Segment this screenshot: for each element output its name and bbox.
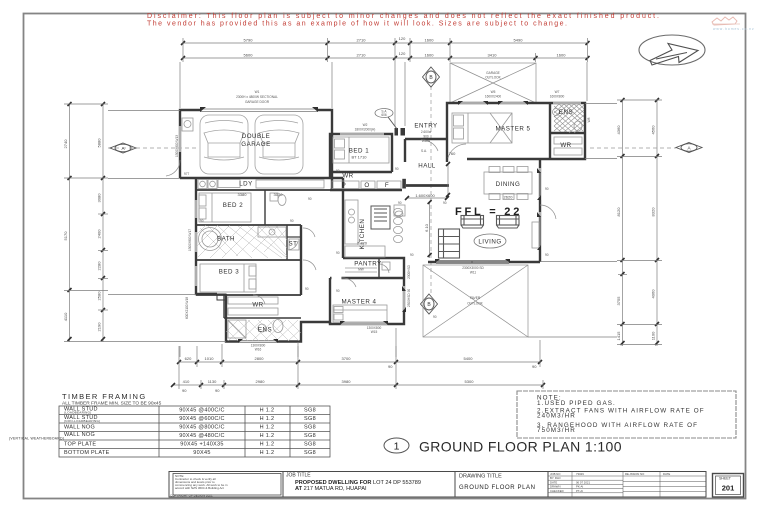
svg-text:90: 90 (398, 201, 402, 205)
svg-text:120: 120 (399, 51, 406, 56)
svg-text:2.720: 2.720 (357, 241, 368, 246)
svg-text:90: 90 (545, 253, 549, 257)
svg-text:W16: W16 (255, 348, 262, 352)
svg-text:3700: 3700 (342, 356, 352, 361)
svg-text:1300X800 W13: 1300X800 W13 (175, 135, 179, 157)
svg-text:90: 90 (433, 315, 437, 319)
svg-text:W7: W7 (555, 90, 560, 94)
svg-text:H 1.2: H 1.2 (260, 442, 275, 448)
svg-text:BT 1710: BT 1710 (351, 155, 367, 160)
svg-text:2710: 2710 (357, 53, 367, 58)
svg-text:2980: 2980 (256, 379, 266, 384)
svg-text:90: 90 (290, 219, 294, 223)
svg-text:BATH: BATH (217, 236, 235, 243)
svg-text:90X45: 90X45 (193, 450, 210, 456)
svg-text:90: 90 (443, 201, 447, 205)
svg-text:2190: 2190 (97, 322, 102, 332)
svg-text:W5: W5 (491, 90, 496, 94)
svg-text:6.10: 6.10 (424, 223, 429, 232)
svg-text:w w w . h o m e s . c o . n z: w w w . h o m e s . c o . n z (713, 27, 754, 31)
svg-text:LDY: LDY (239, 181, 253, 188)
svg-text:90: 90 (336, 169, 340, 173)
svg-text:W8: W8 (587, 117, 591, 122)
svg-text:90: 90 (545, 187, 549, 191)
svg-text:240M3/HR: 240M3/HR (537, 413, 576, 420)
svg-text:SG8: SG8 (304, 425, 316, 431)
svg-text:DOUBLE: DOUBLE (242, 133, 270, 140)
svg-text:P: P (342, 182, 347, 189)
svg-text:900: 900 (423, 135, 429, 139)
svg-text:1800X2000(H): 1800X2000(H) (355, 128, 376, 132)
svg-text:90: 90 (336, 289, 340, 293)
svg-text:TIMBER FRAMING: TIMBER FRAMING (62, 392, 147, 401)
svg-text:2300HSD 90: 2300HSD 90 (407, 289, 411, 307)
svg-text:SG8: SG8 (304, 450, 316, 456)
svg-text:1.USED PIPED GAS.: 1.USED PIPED GAS. (537, 400, 616, 407)
svg-text:ENTRY: ENTRY (414, 123, 437, 130)
svg-text:1130: 1130 (208, 379, 217, 384)
svg-text:WR: WR (342, 173, 353, 180)
svg-text:2740: 2740 (63, 139, 68, 149)
svg-text:4560: 4560 (651, 125, 656, 135)
svg-text:H 1.2: H 1.2 (260, 425, 275, 431)
svg-text:Disclaimer: This floor plan is: Disclaimer: This floor plan is subject t… (147, 13, 659, 20)
svg-text:MASTER 4: MASTER 4 (342, 299, 377, 306)
svg-text:90: 90 (388, 364, 393, 369)
svg-text:4060: 4060 (651, 289, 656, 299)
svg-text:AT 217 MATUA RD, HUAPAI: AT 217 MATUA RD, HUAPAI (295, 486, 367, 492)
svg-text:90: 90 (308, 197, 312, 201)
svg-text:WDW: WDW (422, 139, 430, 143)
svg-text:WR: WR (252, 302, 263, 309)
svg-text:5400: 5400 (464, 356, 474, 361)
svg-text:FFL = 22: FFL = 22 (455, 206, 522, 218)
svg-text:90X45 +140X35: 90X45 +140X35 (180, 442, 224, 448)
svg-text:SG8: SG8 (304, 433, 316, 439)
svg-text:DRAWING TITLE: DRAWING TITLE (459, 474, 502, 480)
svg-text:2710: 2710 (357, 38, 367, 43)
svg-text:600X2100 W18: 600X2100 W18 (185, 297, 189, 319)
svg-text:120: 120 (399, 36, 406, 41)
svg-text:BED 2: BED 2 (223, 202, 243, 209)
svg-text:BOTTOM PLATE: BOTTOM PLATE (64, 450, 110, 456)
svg-text:5300: 5300 (465, 379, 475, 384)
svg-text:H 1.2: H 1.2 (260, 433, 275, 439)
svg-text:W1: W1 (255, 90, 260, 94)
svg-text:1600X800: 1600X800 (550, 95, 565, 99)
svg-text:606: 606 (381, 113, 387, 117)
svg-text:WR: WR (560, 142, 571, 149)
svg-text:2400: 2400 (97, 229, 102, 239)
svg-text:90: 90 (200, 219, 204, 223)
svg-text:4110: 4110 (63, 312, 68, 321)
svg-text:ENS: ENS (258, 327, 272, 334)
svg-text:H 1.2: H 1.2 (260, 450, 275, 456)
svg-text:1010: 1010 (205, 356, 215, 361)
svg-text:8320: 8320 (651, 207, 656, 217)
svg-text:90: 90 (532, 364, 537, 369)
svg-text:90: 90 (336, 251, 340, 255)
svg-text:S.A.: S.A. (421, 149, 427, 153)
svg-text:90: 90 (410, 253, 414, 257)
svg-text:73029: 73029 (576, 472, 584, 476)
svg-text:201: 201 (722, 484, 735, 493)
svg-text:GARAGE DOOR: GARAGE DOOR (245, 100, 270, 104)
svg-text:8120: 8120 (616, 207, 621, 217)
svg-text:1600X2400: 1600X2400 (485, 95, 502, 99)
svg-text:3755: 3755 (616, 296, 621, 306)
svg-text:The vendor has provided this a: The vendor has provided this as an examp… (147, 21, 567, 28)
svg-text:1300X800 W17: 1300X800 W17 (188, 229, 192, 251)
svg-text:2280: 2280 (97, 261, 102, 271)
svg-text:PAVER: PAVER (470, 296, 481, 300)
svg-text:3380: 3380 (238, 192, 248, 197)
svg-text:90: 90 (215, 388, 220, 393)
svg-text:1600: 1600 (425, 53, 435, 58)
svg-text:PT-AI: PT-AI (576, 489, 583, 493)
svg-text:2580: 2580 (97, 291, 102, 301)
svg-text:W11: W11 (470, 271, 477, 275)
svg-text:PANTRY: PANTRY (354, 261, 382, 268)
svg-text:JOB TITLE: JOB TITLE (286, 473, 311, 479)
svg-text:MW: MW (358, 268, 364, 272)
svg-text:1415: 1415 (616, 331, 621, 341)
svg-text:SG8: SG8 (304, 408, 316, 414)
svg-text:ENS: ENS (559, 109, 573, 116)
svg-text:(LOADBEARING): (LOADBEARING) (64, 411, 92, 415)
svg-text:TOP PLATE: TOP PLATE (64, 442, 96, 448)
svg-text:620: 620 (185, 356, 192, 361)
svg-text:90X45 @600C/C: 90X45 @600C/C (179, 416, 225, 422)
svg-text:1100: 1100 (651, 331, 656, 340)
svg-text:GARAGE: GARAGE (486, 71, 500, 75)
svg-text:5880: 5880 (97, 138, 102, 148)
svg-text:WALL NOG: WALL NOG (64, 432, 95, 438)
svg-text:RE-ISSION NO: RE-ISSION NO (625, 472, 645, 476)
svg-text:HALL: HALL (418, 163, 436, 170)
svg-text:W2: W2 (363, 123, 368, 127)
svg-text:1: 1 (394, 441, 400, 453)
svg-text:3410: 3410 (488, 53, 498, 58)
svg-text:W15: W15 (371, 330, 378, 334)
svg-text:OUTLOOK: OUTLOOK (485, 76, 501, 80)
svg-text:5490: 5490 (514, 38, 524, 43)
svg-text:(VERTICAL WEATHERBOARD): (VERTICAL WEATHERBOARD) (9, 436, 64, 440)
svg-text:GARAGE: GARAGE (241, 141, 270, 148)
svg-text:ST: ST (289, 241, 298, 248)
svg-text:OUTLOOK: OUTLOOK (467, 302, 483, 306)
svg-text:CHECKED: CHECKED (550, 489, 564, 493)
svg-text:410: 410 (183, 379, 190, 384)
svg-text:SHEET: SHEET (719, 477, 732, 481)
svg-text:F: F (385, 182, 389, 189)
svg-text:BED 1: BED 1 (349, 148, 369, 155)
svg-text:GROUND FLOOR PLAN: GROUND FLOOR PLAN (459, 485, 536, 491)
svg-text:2300HSD: 2300HSD (407, 264, 411, 279)
svg-text:1600: 1600 (425, 38, 435, 43)
svg-text:GROUND FLOOR PLAN 1:100: GROUND FLOOR PLAN 1:100 (419, 439, 622, 455)
svg-text:SG8: SG8 (304, 442, 316, 448)
svg-text:COPYRIGHT OF DESIGN 2021: COPYRIGHT OF DESIGN 2021 (170, 494, 213, 498)
svg-text:O: O (364, 182, 369, 189)
svg-text:DATE: DATE (663, 472, 670, 476)
svg-text:2800: 2800 (255, 356, 265, 361)
svg-text:2.600w: 2.600w (421, 130, 432, 134)
svg-text:LIVING: LIVING (478, 239, 501, 246)
svg-text:5790: 5790 (244, 38, 254, 43)
svg-text:MASTER 5: MASTER 5 (496, 126, 531, 133)
svg-text:4360: 4360 (616, 125, 621, 135)
svg-text:SG8: SG8 (304, 416, 316, 422)
svg-text:5600: 5600 (244, 53, 254, 58)
svg-text:1.600X600: 1.600X600 (415, 193, 435, 198)
svg-text:H 1.2: H 1.2 (260, 408, 275, 414)
svg-text:3980: 3980 (342, 379, 352, 384)
svg-text:3070: 3070 (274, 192, 284, 197)
svg-text:BED 3: BED 3 (219, 269, 239, 276)
svg-text:DINING: DINING (496, 181, 521, 188)
svg-text:90: 90 (395, 167, 399, 171)
svg-text:1600: 1600 (557, 53, 567, 58)
svg-text:accord with NZS 3604 & Buildin: accord with NZS 3604 & Building Act (175, 486, 224, 490)
svg-text:760: 760 (449, 151, 456, 156)
svg-text:H 1.2: H 1.2 (260, 416, 275, 422)
svg-text:90X45 @800C/C: 90X45 @800C/C (179, 425, 225, 431)
svg-text:90X45 @480C/C: 90X45 @480C/C (179, 433, 225, 439)
svg-text:WALL NOG: WALL NOG (64, 425, 95, 431)
svg-text:3080: 3080 (97, 193, 102, 203)
svg-text:2620: 2620 (504, 195, 514, 200)
svg-text:90X45 @400C/C: 90X45 @400C/C (179, 408, 225, 414)
svg-text:977: 977 (184, 172, 190, 176)
svg-text:(NON-LOADBEARING): (NON-LOADBEARING) (64, 419, 100, 423)
svg-text:90: 90 (182, 388, 187, 393)
svg-text:5170: 5170 (63, 231, 68, 241)
svg-text:2300H x 4800W SECTIONAL: 2300H x 4800W SECTIONAL (236, 95, 278, 99)
svg-text:750M3/HR: 750M3/HR (537, 427, 576, 434)
svg-text:90: 90 (305, 287, 309, 291)
svg-text:2300X3000 SD: 2300X3000 SD (462, 266, 484, 270)
